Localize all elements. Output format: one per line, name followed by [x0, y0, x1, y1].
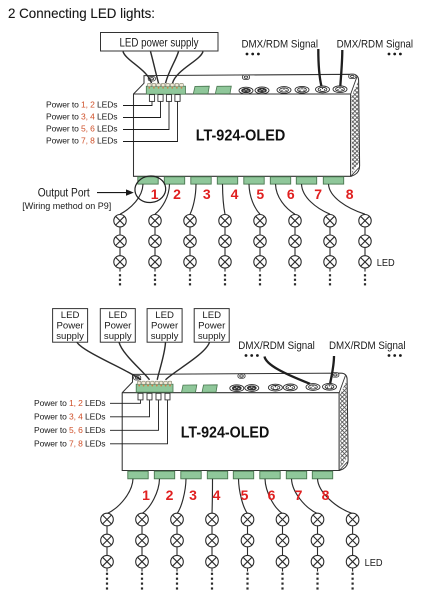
svg-text:6: 6 — [268, 487, 276, 503]
svg-text:Power to 7, 8 LEDs: Power to 7, 8 LEDs — [34, 438, 105, 448]
svg-text:supply: supply — [56, 331, 84, 342]
power output pins P5-P8 (bottom device) — [138, 393, 170, 400]
arrow pointing at output port 1 — [97, 189, 134, 195]
screw hole (left, bottom device) — [134, 376, 141, 380]
LED chain 6 (top diagram), lamps L6a-L6c — [289, 215, 301, 286]
output port 7 (top device) — [296, 177, 316, 184]
right side vent panel (hatched) — [351, 77, 359, 173]
svg-text:Power: Power — [104, 320, 132, 331]
screw hole (right, top device) — [349, 74, 356, 78]
svg-text:2: 2 — [173, 186, 181, 202]
LED Power supply box PS5 — [194, 309, 229, 343]
output wire from port 6 to LED chain 6 — [276, 184, 296, 214]
svg-text:6: 6 — [287, 186, 295, 202]
svg-text:DMX/RDM Signal: DMX/RDM Signal — [337, 39, 414, 51]
green connector block D (bottom device top face) — [202, 385, 217, 393]
screw hole (right, bottom device) — [332, 373, 339, 377]
XLR connector J10 (bottom device) — [283, 384, 297, 391]
power output pins P1-P4 (top device) — [149, 95, 180, 102]
LED chain 8 (top diagram), lamps L8a-L8c — [359, 215, 371, 286]
output wire from bottom port 5 to LED chain 13 — [239, 479, 248, 514]
wire PS1 to terminal V1+ — [123, 52, 152, 84]
svg-text:[Wiring method on P9]: [Wiring method on P9] — [22, 201, 111, 212]
chamfer at bottom-right corner (bottom device) — [340, 462, 348, 470]
output port 2 (top device) — [164, 177, 184, 184]
chamfer at bottom-right corner (top device) — [351, 168, 359, 176]
output port 6 (bottom device) — [260, 471, 280, 479]
leader line for "Power to 7, 8 LEDs" — [123, 102, 178, 142]
DMX/RDM Signal label (left, bottom diagram) — [238, 340, 314, 357]
LED Power supply box PS2 — [53, 309, 88, 343]
output port 1 (bottom device) — [128, 471, 148, 479]
power input terminal block TB2 — [136, 384, 173, 392]
output port 7 (bottom device) — [286, 471, 306, 479]
svg-text:Power: Power — [198, 320, 226, 331]
LED chain 11 (bottom diagram), lamps M3a-M3c — [171, 513, 184, 589]
wire PS1 to terminal V2+ — [151, 52, 159, 84]
svg-text:7: 7 — [295, 487, 303, 503]
svg-text:LED: LED — [108, 310, 127, 321]
DMX/RDM Signal label (left, top diagram) — [242, 39, 319, 56]
leader line for "Power to 1, 2 LEDs" — [123, 102, 152, 106]
output wire from port 3 to LED chain 3 — [190, 184, 196, 214]
LED chain 10 (bottom diagram), lamps M2a-M2c — [136, 513, 149, 589]
green connector block C (bottom device top face) — [182, 385, 197, 393]
leader line for "Power to 5, 6 LEDs" (bottom) — [110, 400, 159, 430]
wire PS4 to terminal TB2 — [157, 342, 165, 380]
svg-text:LT-924-OLED: LT-924-OLED — [196, 128, 286, 145]
leader line for "Power to 3, 4 LEDs" (bottom) — [110, 400, 150, 417]
LED Power supply box PS4 — [147, 309, 182, 343]
wire PS2 to terminal TB2 — [77, 342, 141, 380]
XLR connector J4 (top device) — [295, 86, 309, 93]
svg-text:Output Port: Output Port — [38, 187, 91, 199]
LED chain 7 (top diagram), lamps L7a-L7c — [324, 215, 336, 286]
svg-text:supply: supply — [104, 331, 132, 342]
svg-text:LED: LED — [365, 558, 383, 569]
controller LT-924-OLED (top diagram) chassis outline — [134, 74, 360, 176]
output wire from bottom port 4 to LED chain 12 — [211, 479, 214, 514]
output port 1 (top device) — [138, 177, 158, 184]
output wire from port 2 to LED chain 2 — [155, 184, 170, 214]
svg-text:4: 4 — [213, 487, 221, 503]
svg-text:DMX/RDM Signal: DMX/RDM Signal — [242, 39, 319, 51]
svg-text:LED: LED — [202, 310, 221, 321]
output port 6 (top device) — [270, 177, 290, 184]
output wire from port 7 to LED chain 7 — [302, 184, 331, 214]
LED chain 4 (top diagram), lamps L4a-L4c — [219, 215, 231, 286]
DMX/RDM Signal label (right, top diagram) — [337, 39, 414, 56]
DMX signal wire (right) into connector J12 — [330, 356, 334, 383]
XLR connector J9 (bottom device) — [268, 384, 282, 391]
LED power supply box PS1 — [101, 33, 219, 52]
green connector block A (top face) — [193, 86, 209, 94]
output wire from bottom port 7 to LED chain 15 — [292, 479, 318, 514]
output wire from bottom port 3 to LED chain 11 — [177, 479, 186, 514]
svg-text:7: 7 — [314, 186, 322, 202]
svg-text:1: 1 — [151, 186, 159, 202]
LED chain 12 (bottom diagram), lamps M4a-M4c — [206, 513, 219, 589]
LED chain 14 (bottom diagram), lamps M6a-M6c — [276, 513, 289, 589]
LED chain 3 (top diagram), lamps L3a-L3c — [184, 215, 196, 286]
svg-text:LED: LED — [61, 310, 80, 321]
svg-text:3: 3 — [203, 186, 211, 202]
front face of controller (bottom diagram) — [122, 393, 339, 471]
DMX signal wire (left) into connector J5 — [318, 49, 321, 87]
output wire from bottom port 1 to LED chain 9 — [107, 479, 133, 514]
wire PS3 to terminal TB2 — [119, 342, 150, 380]
LED chain 13 (bottom diagram), lamps M5a-M5c — [241, 513, 254, 589]
output port 2 (bottom device) — [154, 471, 174, 479]
highlight circle around output port 1 — [134, 175, 167, 204]
output wire from port 5 to LED chain 5 — [249, 184, 260, 214]
svg-text:LT-924-OLED: LT-924-OLED — [181, 424, 270, 441]
svg-text:Power to 5, 6 LEDs: Power to 5, 6 LEDs — [46, 124, 117, 134]
wire PS1 to terminal V4+ — [173, 52, 204, 84]
XLR connector J12 (bottom device) — [323, 383, 337, 390]
svg-text:2: 2 — [166, 487, 174, 503]
terminal TB2 screw teeth — [137, 381, 171, 386]
svg-text:Power to 3, 4 LEDs: Power to 3, 4 LEDs — [46, 112, 117, 122]
svg-text:Power to 3, 4 LEDs: Power to 3, 4 LEDs — [34, 411, 105, 421]
LED chain 2 (top diagram), lamps L2a-L2c — [149, 215, 161, 286]
green connector block B (top face) — [215, 86, 231, 94]
output port 4 (top device) — [217, 177, 237, 184]
svg-text:2 Connecting LED lights:: 2 Connecting LED lights: — [8, 6, 155, 21]
LED chain 9 (bottom diagram), lamps M1a-M1c — [101, 513, 114, 589]
output port 5 (bottom device) — [233, 471, 253, 479]
leader line for "Power to 1, 2 LEDs" (bottom) — [110, 400, 141, 403]
controller LT-924-OLED (bottom diagram) chassis outline — [122, 373, 348, 470]
output wire from port 4 to LED chain 4 — [223, 184, 226, 214]
XLR connector J1 (top device) — [239, 87, 253, 94]
svg-text:LED power supply: LED power supply — [120, 35, 200, 49]
wire PS1 to terminal V3+ — [166, 52, 179, 84]
leader line for "Power to 3, 4 LEDs" — [123, 102, 161, 118]
screw hole (left, top device) — [148, 77, 155, 81]
DMX signal wire (right) into connector J6 — [340, 50, 342, 86]
svg-text:supply: supply — [151, 331, 179, 342]
terminal TB1 screw teeth — [148, 83, 184, 88]
XLR connector J3 (top device) — [277, 87, 291, 94]
svg-text:LED: LED — [155, 310, 174, 321]
XLR connector J6 (top device) — [333, 86, 347, 93]
svg-text:Power to 1, 2 LEDs: Power to 1, 2 LEDs — [34, 398, 105, 408]
screw hole (middle, top device) — [242, 75, 249, 79]
XLR connector J7 (bottom device) — [230, 385, 244, 392]
XLR connector J5 (top device) — [316, 86, 330, 93]
output port 8 (bottom device) — [312, 471, 332, 479]
svg-text:8: 8 — [346, 186, 354, 202]
right side vent panel (hatched, bottom device) — [339, 376, 347, 468]
front face of controller (top diagram) — [134, 94, 351, 176]
svg-text:3: 3 — [189, 487, 197, 503]
svg-text:LED: LED — [377, 258, 395, 269]
leader line for "Power to 5, 6 LEDs" — [123, 102, 169, 130]
output wire from port 1 to LED chain 1 — [120, 184, 143, 214]
output wire from bottom port 2 to LED chain 10 — [142, 479, 160, 514]
svg-text:5: 5 — [241, 487, 249, 503]
output port 4 (bottom device) — [207, 471, 227, 479]
XLR connector J2 (top device) — [255, 87, 269, 94]
output port 3 (top device) — [191, 177, 211, 184]
svg-text:4: 4 — [231, 186, 239, 202]
svg-text:5: 5 — [256, 186, 264, 202]
leader line for "Power to 7, 8 LEDs" (bottom) — [110, 400, 168, 444]
output wire from bottom port 8 to LED chain 16 — [318, 479, 353, 514]
DMX/RDM Signal label (right, bottom diagram) — [329, 340, 406, 357]
svg-text:DMX/RDM Signal: DMX/RDM Signal — [329, 340, 406, 352]
screw hole (middle, bottom device) — [238, 374, 245, 378]
output wire from port 8 to LED chain 8 — [329, 184, 366, 214]
LED chain 15 (bottom diagram), lamps M7a-M7c — [311, 513, 324, 589]
svg-text:Power: Power — [151, 320, 179, 331]
svg-text:Power to 5, 6 LEDs: Power to 5, 6 LEDs — [34, 425, 105, 435]
LED chain 5 (top diagram), lamps L5a-L5c — [254, 215, 266, 286]
svg-text:8: 8 — [322, 487, 330, 503]
svg-text:supply: supply — [198, 331, 226, 342]
svg-text:Power to 7, 8 LEDs: Power to 7, 8 LEDs — [46, 136, 117, 146]
output wire from bottom port 6 to LED chain 14 — [265, 479, 283, 514]
DMX signal wire (left) into connector J11 — [265, 357, 311, 384]
svg-text:Power to 1, 2 LEDs: Power to 1, 2 LEDs — [46, 100, 117, 110]
LED Power supply box PS3 — [100, 309, 135, 343]
LED chain 16 (bottom diagram), lamps M8a-M8c — [346, 513, 359, 589]
XLR connector J8 (bottom device) — [245, 385, 259, 392]
power input terminal block TB1 — [146, 86, 185, 94]
svg-text:DMX/RDM Signal: DMX/RDM Signal — [238, 340, 314, 352]
LED chain 1 (top diagram), lamps L1a-L1c — [114, 215, 126, 286]
svg-text:Power: Power — [56, 320, 84, 331]
output port 5 (top device) — [244, 177, 264, 184]
output port 3 (bottom device) — [181, 471, 201, 479]
wire PS5 to terminal TB2 — [166, 342, 210, 380]
output port 8 (top device) — [323, 177, 343, 184]
XLR connector J11 (bottom device) — [306, 384, 320, 391]
svg-text:1: 1 — [142, 487, 150, 503]
